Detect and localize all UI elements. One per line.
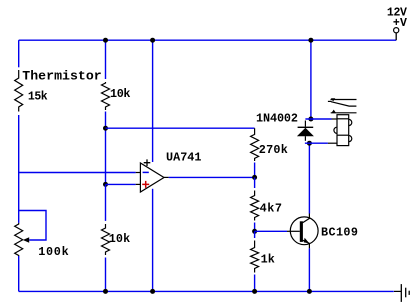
svg-text:4k7: 4k7 xyxy=(260,202,282,216)
wire collector xyxy=(308,143,310,213)
relay contact top xyxy=(331,99,357,101)
wire 10k divider top xyxy=(105,40,107,79)
wire bottom ground rail xyxy=(19,290,394,292)
wire inverting input xyxy=(19,172,136,174)
svg-text:BC109: BC109 xyxy=(321,226,358,240)
wire emitter xyxy=(308,248,310,291)
wire +V to diode node xyxy=(310,40,312,119)
node top rail / 10k xyxy=(103,38,108,43)
wire 4k7 top xyxy=(254,177,256,188)
relay contact bottom xyxy=(331,112,357,114)
wire 270k bottom xyxy=(254,163,256,178)
node ground rail 1k xyxy=(252,289,257,294)
op-amp V+ plus xyxy=(144,159,151,166)
svg-text:1k: 1k xyxy=(261,253,275,267)
node output / 270k / 4k7 xyxy=(252,175,257,180)
op-amp UA741 xyxy=(140,163,164,192)
wire diode bottom to relay xyxy=(305,142,328,144)
thermistor 15k xyxy=(15,70,23,112)
potentiometer loop wire xyxy=(19,211,46,241)
node ground rail 10k xyxy=(103,289,108,294)
svg-text:UA741: UA741 xyxy=(166,150,202,164)
wire 10k bottom to node xyxy=(105,112,107,185)
wire opamp supply upper xyxy=(152,40,154,162)
terminal +V xyxy=(395,33,397,40)
resistor 10k lower xyxy=(102,224,110,255)
wire top +V rail xyxy=(19,39,397,41)
wire opamp supply lower xyxy=(152,189,154,292)
node 4k7 / 1k / base xyxy=(252,229,257,234)
relay coil xyxy=(337,115,349,146)
wire diode top to relay xyxy=(305,118,331,120)
svg-text:10k: 10k xyxy=(109,232,131,246)
svg-text:Thermistor: Thermistor xyxy=(22,69,101,84)
wire opamp output xyxy=(164,176,169,178)
node noninverting input xyxy=(103,182,108,187)
svg-text:+V: +V xyxy=(393,17,407,30)
svg-text:1N4002: 1N4002 xyxy=(256,112,298,126)
resistor 10k upper xyxy=(102,82,110,110)
transistor Q1 BC109 xyxy=(290,217,318,245)
svg-text:270k: 270k xyxy=(259,143,288,157)
potentiometer wiper arrow xyxy=(23,237,29,242)
node ground rail emitter xyxy=(307,289,312,294)
resistor 1k xyxy=(251,241,259,273)
wire 4k7 bottom xyxy=(254,223,256,232)
node top rail diode xyxy=(308,38,313,43)
wire base xyxy=(255,230,287,232)
svg-text:100k: 100k xyxy=(38,245,68,259)
node 10k / 270k feed xyxy=(103,126,108,131)
op-amp minus mark xyxy=(143,171,149,173)
resistor 270k xyxy=(251,128,259,161)
diode 1N4002 xyxy=(304,121,306,127)
svg-text:15k: 15k xyxy=(28,91,48,104)
wire 1k bottom xyxy=(254,275,256,292)
wire 1k top xyxy=(254,231,256,238)
potentiometer 100k xyxy=(15,223,23,256)
wire 10k lower bottom xyxy=(105,258,107,292)
wire to 270k xyxy=(106,127,255,129)
wire noninverting input xyxy=(106,183,136,185)
resistor 4k7 xyxy=(251,191,259,221)
node top rail supply xyxy=(150,38,155,43)
wire left vertical middle xyxy=(18,115,20,223)
op-amp plus mark xyxy=(142,181,149,188)
relay armature xyxy=(328,100,332,102)
wire left vertical upper xyxy=(18,40,20,67)
node ground rail supply xyxy=(150,289,155,294)
node diode top xyxy=(308,117,313,122)
svg-text:10k: 10k xyxy=(110,87,131,101)
ground symbol xyxy=(394,290,401,292)
node diode bottom xyxy=(307,141,312,146)
wire 10k lower top xyxy=(105,184,107,221)
wire left vertical lower xyxy=(18,256,20,291)
